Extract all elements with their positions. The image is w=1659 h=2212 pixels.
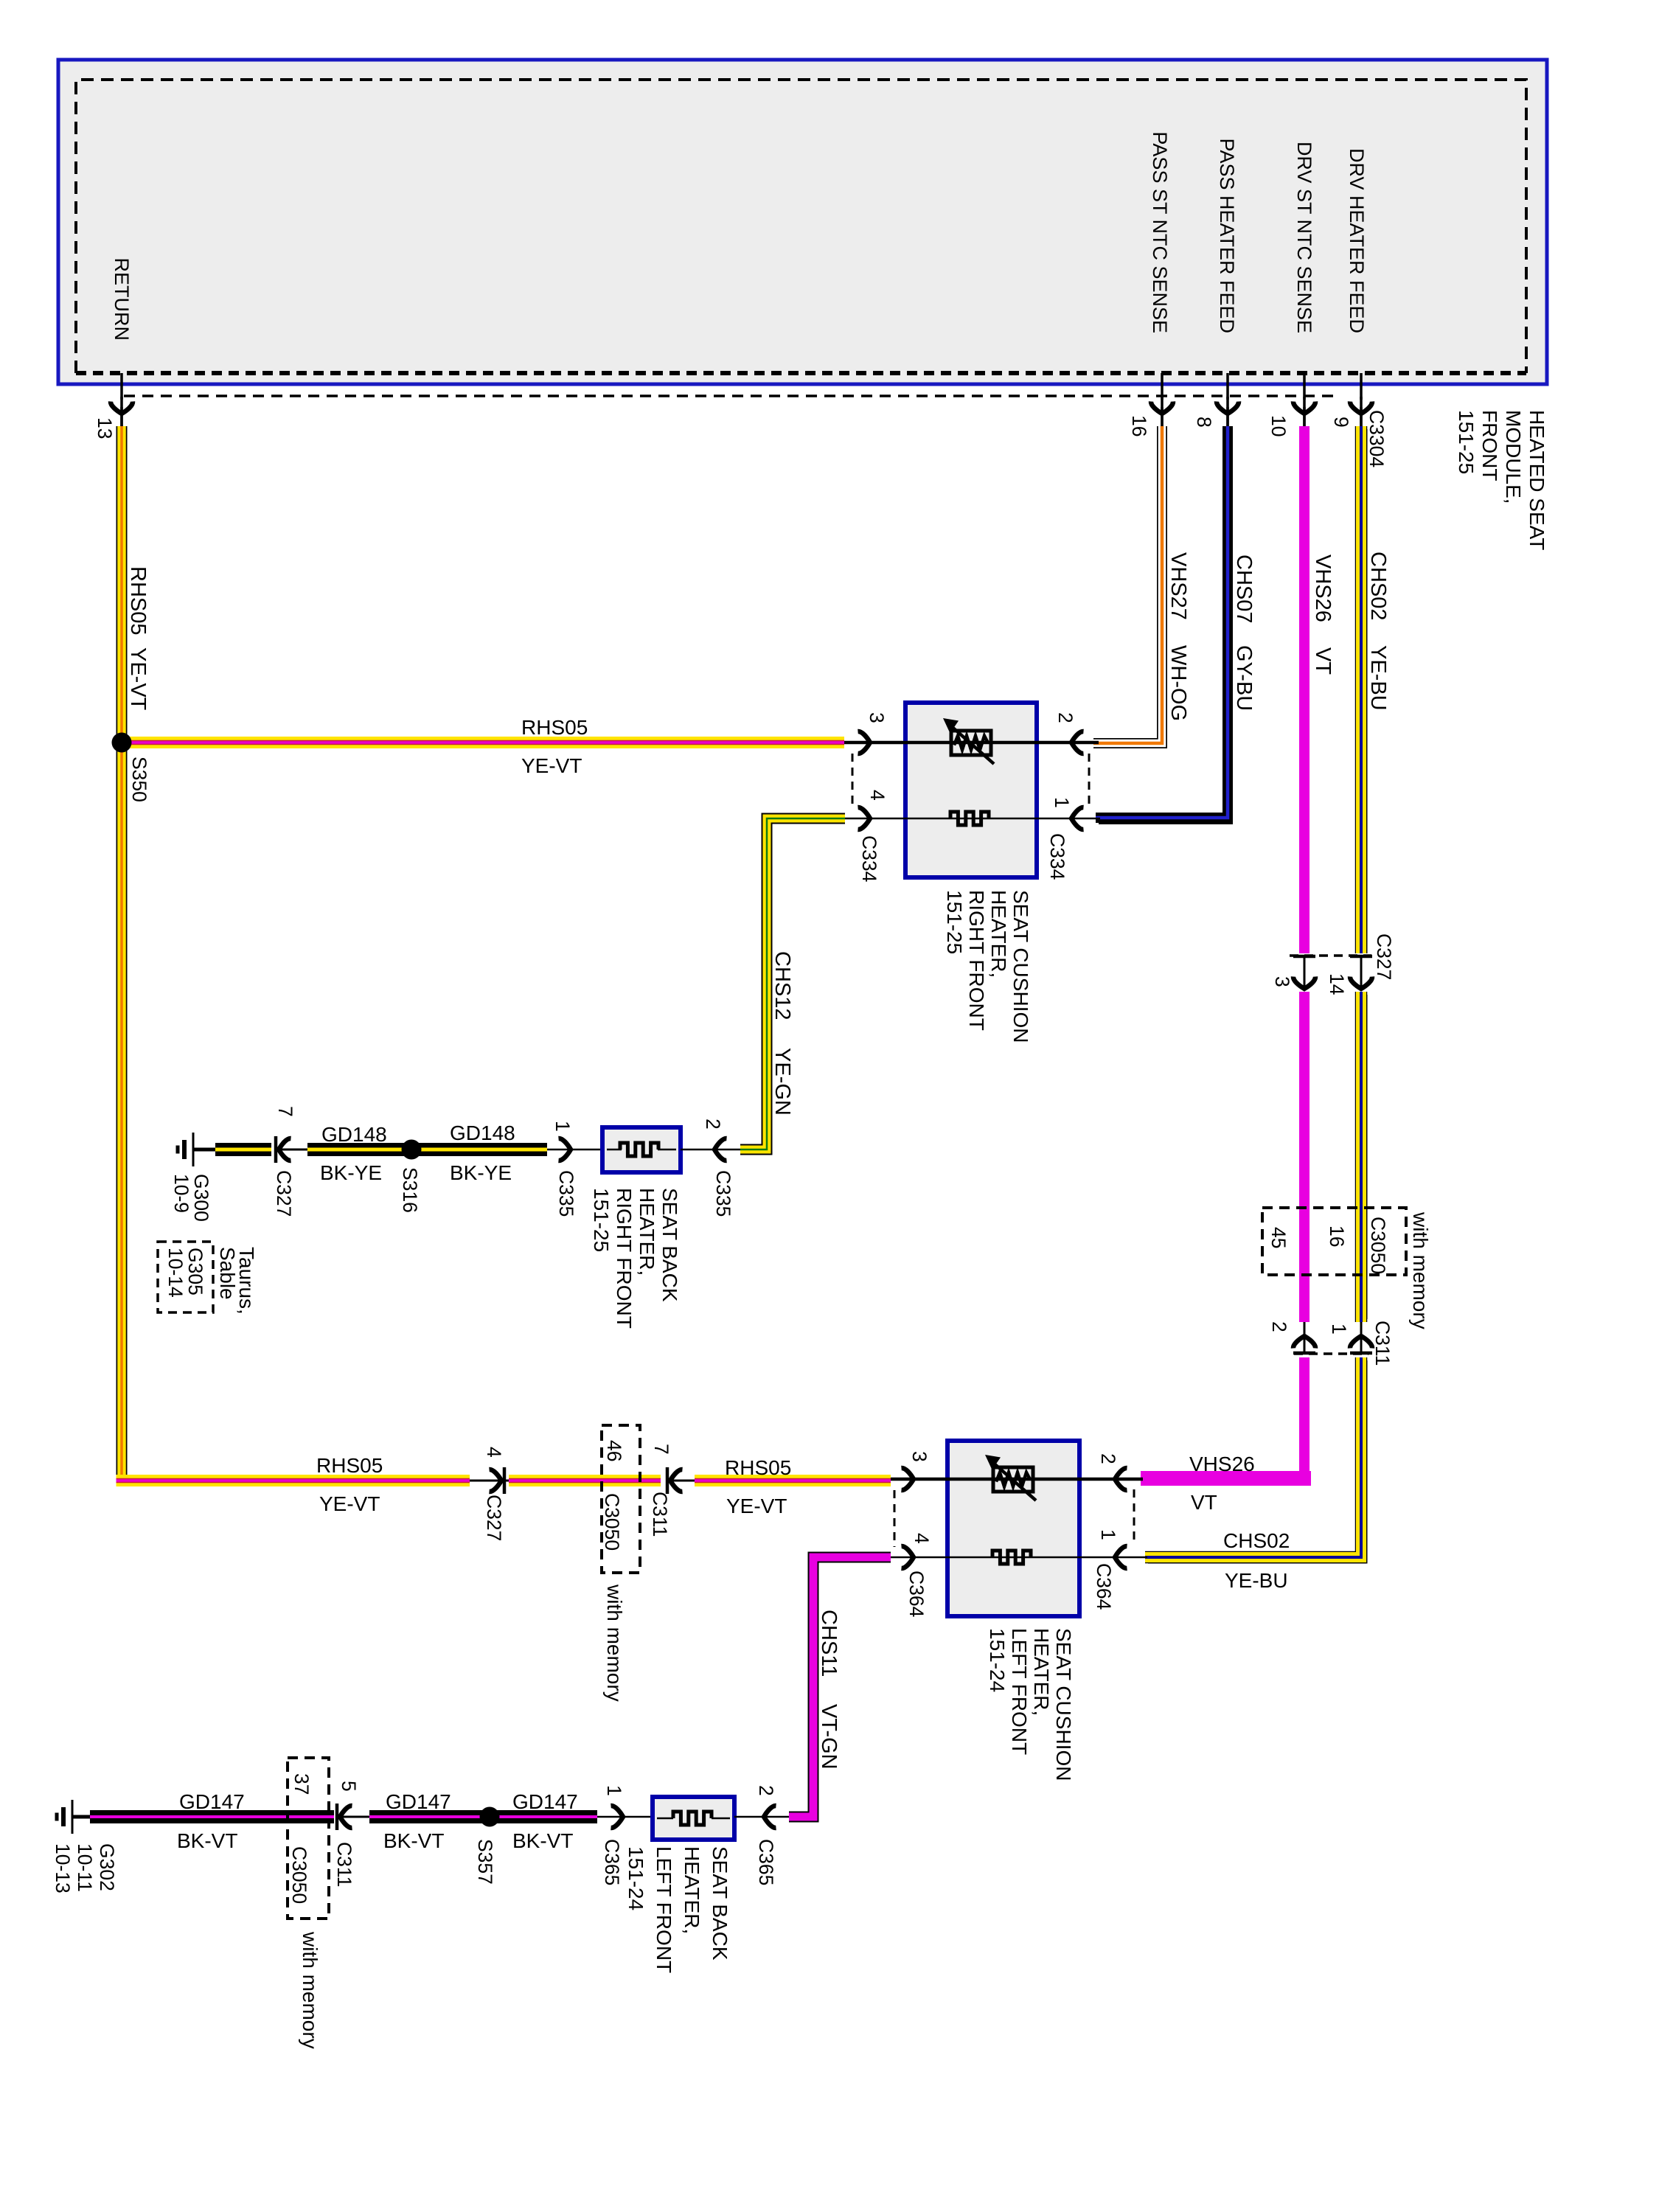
pin label PASS HEATER FEED [1216,138,1238,333]
svg-text:2: 2 [1054,712,1077,723]
wire GD148 BK-YE segment 2 [307,1143,411,1156]
pin 8 of C3304 [1217,373,1239,426]
wire GD147 labels segment 3 [512,1790,578,1852]
wire RHS05 label vertical [126,566,150,711]
wire VHS26 VT from pin 10 segment 1 [1299,426,1310,953]
left cushion heater name [986,1628,1075,1781]
svg-text:RHS05: RHS05 [126,566,150,636]
right seat back heater pin 2 arrow [681,1138,740,1161]
ground reference G305 labels [164,1248,206,1298]
connector C327 pin 14 label [1326,973,1348,995]
connector C364 dashed left [894,1490,896,1547]
connector C327 label lower [483,1495,505,1541]
svg-text:C3050: C3050 [601,1493,623,1551]
svg-text:VHS27: VHS27 [1166,552,1190,620]
svg-text:C3304: C3304 [1366,410,1388,467]
svg-text:4: 4 [866,790,888,801]
connector C311 label right [1371,1321,1394,1366]
svg-text:2: 2 [702,1119,724,1130]
svg-text:S350: S350 [128,757,150,802]
svg-text:with memory: with memory [603,1584,626,1702]
svg-text:151-24: 151-24 [986,1628,1009,1692]
heater element right seat back [620,1143,658,1156]
svg-text:SEAT BACK: SEAT BACK [709,1846,731,1961]
note with memory lower middle [603,1584,626,1702]
connector C335 pin 1 arrow [547,1138,602,1161]
svg-text:C364: C364 [1093,1563,1115,1610]
svg-text:CHS02: CHS02 [1223,1529,1290,1552]
wire pin3-pin2 through left cushion heater [891,1478,1143,1481]
ground G302 [57,1800,91,1834]
svg-text:S316: S316 [399,1167,421,1213]
svg-text:HEATER,: HEATER, [636,1188,658,1276]
wire CHS12 labels [771,951,794,1116]
connector C327 pin 7 label [274,1106,296,1117]
left cushion heater pin 3 arrow [902,1468,914,1490]
connector C335 label left [555,1170,577,1217]
right cushion heater pin 2 label [1054,712,1077,723]
svg-text:C3050: C3050 [288,1846,310,1904]
connector C327 pin 3 arrow [1293,956,1315,989]
wire VHS26 horizontal labels [1189,1453,1255,1514]
wire VHS26 labels [1311,554,1335,675]
pin 16 label [1128,415,1150,437]
right cushion heater pin 2 arrow [1071,731,1084,754]
connector C3050 pin 37 label [291,1773,313,1795]
heater element left seat back [673,1812,712,1825]
svg-text:4: 4 [483,1447,505,1458]
svg-text:DRV HEATER FEED: DRV HEATER FEED [1346,148,1368,333]
ground G300 label [170,1174,212,1222]
svg-text:13: 13 [94,417,116,439]
connector C311 pin 1 label [1328,1324,1350,1335]
left cushion heater pin 3 label [908,1451,931,1462]
wire GD148 labels segment 3 [450,1121,515,1184]
wire GD148 labels segment 2 [320,1123,387,1184]
svg-text:C311: C311 [649,1492,671,1537]
connector C3050 label right [1367,1217,1389,1274]
wire RHS05 YE-VT lower run segment 3 [695,1475,891,1486]
thermistor in left cushion heater [985,1455,1036,1500]
svg-text:YE-VT: YE-VT [126,647,150,711]
svg-text:1: 1 [603,1785,625,1796]
svg-text:16: 16 [1128,415,1150,437]
svg-text:C3050: C3050 [1367,1217,1389,1274]
svg-text:4: 4 [911,1533,933,1544]
svg-text:10-13: 10-13 [52,1843,74,1893]
right seat back heater name [590,1188,681,1329]
pin label DRV ST NTC SENSE [1293,142,1315,333]
svg-text:DRV ST NTC SENSE: DRV ST NTC SENSE [1293,142,1315,333]
svg-text:3: 3 [1271,976,1293,987]
svg-text:SEAT CUSHION: SEAT CUSHION [1052,1628,1075,1781]
wire VHS26 VT segment 2 [1299,992,1310,1322]
wire GD148 BK-YE segment 1 [215,1143,271,1156]
right cushion heater pin 4 arrow [858,807,871,829]
svg-text:BK-VT: BK-VT [512,1829,573,1852]
connector C327 pin 7 bar and arrow [276,1136,307,1163]
connector C365 pin 1 arrow [597,1806,653,1828]
svg-text:151-25: 151-25 [590,1188,613,1252]
connector C327 pin 3 label [1271,976,1293,987]
module name HEATED SEAT MODULE, FRONT, 151-25 [1455,410,1548,550]
svg-text:1: 1 [1328,1324,1350,1335]
left seat back heater pin 2 arrow [734,1806,789,1828]
connector C334 label left [858,835,880,882]
svg-text:151-25: 151-25 [943,890,966,954]
svg-text:VT: VT [1191,1491,1217,1514]
wire CHS11 VT-GN [789,1557,891,1817]
svg-text:CHS11: CHS11 [817,1610,841,1677]
svg-text:GD147: GD147 [512,1790,578,1813]
connector C327 pin 4 arrow [470,1467,509,1494]
splice S357 [480,1807,500,1827]
svg-text:C327: C327 [483,1495,505,1541]
right cushion heater pin 1 arrow [1071,807,1084,829]
svg-text:RIGHT FRONT: RIGHT FRONT [613,1188,636,1329]
pin 9 of C3304 [1350,373,1372,426]
ground G302 label [52,1843,118,1893]
note with memory lower left [299,1931,321,2049]
wire RHS05 YE-VT lower run segment 2 [509,1475,661,1486]
svg-text:BK-YE: BK-YE [450,1161,512,1184]
left seat back heater name [625,1846,731,1973]
splice S316 label [399,1167,421,1213]
connector C311 pin 7 label [650,1444,672,1455]
note Taurus Sable [216,1247,258,1315]
left cushion heater pin 2 label [1097,1453,1119,1464]
pin label DRV HEATER FEED [1346,148,1368,333]
connector C311 dashed line right [1294,1352,1368,1355]
svg-text:LEFT FRONT: LEFT FRONT [653,1846,675,1973]
svg-text:1: 1 [1097,1529,1119,1540]
svg-text:CHS02: CHS02 [1366,552,1390,621]
wire CHS02 YE-BU from pin 9 segment 1 [1361,426,1364,953]
connector C327 pin 14 arrow [1350,956,1372,989]
connector C334 label right [1046,833,1068,880]
wire VHS26 VT segment 3 to left cushion heater [1141,1357,1311,1486]
seat cushion heater right front box [905,703,1037,877]
pin label RETURN [111,258,133,341]
connector C311 label lower [649,1492,671,1537]
right cushion heater pin 3 arrow [858,731,871,754]
svg-text:C365: C365 [601,1839,623,1885]
svg-text:RIGHT FRONT: RIGHT FRONT [965,890,988,1031]
wire RHS05 YE-VT vertical from pin 13 [116,426,128,1481]
wire GD147 BK-VT segment 1 [90,1810,334,1823]
connector C365 label right [755,1839,777,1885]
svg-text:RHS05: RHS05 [725,1456,791,1479]
svg-text:C365: C365 [755,1839,777,1885]
wire GD147 labels segment 2 [383,1790,451,1852]
connector C311 pin 5 bar and arrow [337,1804,369,1830]
svg-text:GD148: GD148 [321,1123,387,1146]
connector C3050 dashed box lower middle [602,1425,640,1573]
svg-text:VT-GN: VT-GN [817,1704,841,1770]
svg-text:YE-BU: YE-BU [1366,645,1390,711]
svg-text:G300: G300 [190,1174,212,1222]
heater element left cushion [992,1551,1031,1564]
wire CHS02 YE-BU segment 2 [1361,992,1364,1322]
svg-text:GD147: GD147 [386,1790,451,1813]
wire GD147 labels segment 1 [177,1790,245,1852]
svg-text:7: 7 [650,1444,672,1455]
connector C364 label right [1093,1563,1115,1610]
svg-text:CHS07: CHS07 [1232,554,1256,624]
connector C311 pin 7 bar and arrow [667,1467,695,1494]
svg-text:C327: C327 [1373,933,1395,980]
seat cushion heater left front box [947,1441,1079,1616]
svg-text:RHS05: RHS05 [521,716,588,739]
svg-text:Sable: Sable [216,1247,239,1300]
right cushion heater name [943,890,1032,1043]
connector C365 pin 1 label [603,1785,625,1796]
note with memory right [1409,1211,1432,1329]
svg-text:GY-BU: GY-BU [1232,645,1256,711]
connector C327 dashed line [1290,954,1371,957]
svg-text:37: 37 [291,1773,313,1795]
connector C3050 dashed box lower left [288,1758,329,1919]
svg-text:WH-OG: WH-OG [1166,645,1190,721]
svg-text:45: 45 [1267,1227,1290,1248]
wire VHS27 WH-OG from pin 16 [1093,426,1162,743]
connector C364 label left [905,1571,928,1617]
svg-text:151-25: 151-25 [1455,410,1478,474]
thermistor in right cushion heater [943,718,994,764]
svg-text:C311: C311 [1371,1321,1394,1366]
svg-text:MODULE,: MODULE, [1502,410,1525,504]
svg-text:RETURN: RETURN [111,258,133,341]
connector C311 pin 5 label [338,1781,360,1792]
svg-text:YE-VT: YE-VT [521,754,582,777]
wire CHS07 GY-BU from pin 8 [1096,426,1233,822]
connector C3050 dashed box right [1262,1208,1406,1275]
svg-text:8: 8 [1193,417,1215,428]
svg-text:G305: G305 [184,1248,206,1295]
svg-text:14: 14 [1326,973,1348,995]
svg-text:SEAT BACK: SEAT BACK [658,1188,681,1302]
svg-text:10-9: 10-9 [170,1174,192,1213]
wire RHS05 label upper run [521,716,588,777]
svg-text:VHS26: VHS26 [1311,554,1335,622]
connector C327 label [1373,933,1395,980]
ground G300 [178,1133,218,1166]
pin 9 label [1330,417,1352,428]
connector C327 pin 4 label [483,1447,505,1458]
svg-text:2: 2 [755,1785,777,1796]
svg-text:10: 10 [1267,415,1290,437]
pin 13 of C3304 [111,373,133,426]
left cushion heater pin 1 arrow [1115,1546,1127,1568]
pin 10 label [1267,415,1290,437]
connector C334 dashed right [1088,754,1091,808]
svg-text:3: 3 [908,1451,931,1462]
wire CHS02 labels [1366,552,1390,711]
svg-text:LEFT FRONT: LEFT FRONT [1008,1628,1031,1755]
connector label C3304 [1366,410,1388,467]
wire CHS02 horizontal labels [1223,1529,1290,1592]
connector C3304 dashed line below module [124,394,1336,397]
svg-text:YE-GN: YE-GN [771,1048,794,1116]
left seat back heater pin 2 label [755,1785,777,1796]
wire RHS05 YE-VT horizontal to right cushion heater [122,737,844,748]
wire GD148 BK-YE segment 3 [411,1143,547,1156]
svg-text:HEATED SEAT: HEATED SEAT [1526,410,1548,550]
connector C3050 pin 16 label [1326,1225,1348,1247]
svg-text:PASS HEATER FEED: PASS HEATER FEED [1216,138,1238,333]
wire VHS27 labels [1166,552,1190,721]
wire pin4-pin1 through left cushion heater [891,1557,1147,1559]
pin 8 label [1193,417,1215,428]
wire RHS05 lower labels 1 [316,1454,383,1515]
svg-text:9: 9 [1330,417,1352,428]
svg-text:5: 5 [338,1781,360,1792]
left cushion heater pin 1 label [1097,1529,1119,1540]
svg-text:CHS12: CHS12 [771,951,794,1020]
pin 10 of C3304 [1293,373,1315,426]
svg-text:YE-BU: YE-BU [1225,1569,1288,1592]
svg-text:C327: C327 [273,1170,295,1217]
svg-text:7: 7 [274,1106,296,1117]
connector C311 label lower left [333,1842,355,1887]
svg-text:C335: C335 [555,1170,577,1217]
svg-text:10-11: 10-11 [74,1843,96,1892]
connector C335 label right [712,1170,734,1217]
wire pin3-pin2 through right cushion heater [844,741,1099,745]
svg-text:BK-YE: BK-YE [320,1161,382,1184]
svg-text:1: 1 [552,1121,574,1132]
svg-text:YE-VT: YE-VT [319,1492,380,1515]
splice S350 [112,733,132,753]
svg-text:151-24: 151-24 [625,1846,647,1910]
svg-text:VT: VT [1311,647,1335,675]
svg-text:C311: C311 [333,1842,355,1887]
svg-text:GD147: GD147 [179,1790,245,1813]
module inner dashed boundary [76,80,1526,373]
wire RHS05 YE-VT lower run segment 1 [116,1475,470,1486]
splice S350 label [128,757,150,802]
svg-text:2: 2 [1097,1453,1119,1464]
ground reference G305 dashed box [158,1242,213,1312]
left cushion heater pin 2 arrow [1115,1468,1127,1490]
wire CHS12 YE-GN [740,818,845,1150]
svg-text:BK-VT: BK-VT [177,1829,237,1852]
svg-text:C334: C334 [1046,833,1068,880]
svg-text:16: 16 [1326,1225,1348,1247]
svg-text:PASS ST NTC SENSE: PASS ST NTC SENSE [1149,131,1171,333]
svg-text:C334: C334 [858,835,880,882]
seat back heater right front box [602,1127,681,1172]
svg-text:46: 46 [603,1440,625,1461]
seat back heater left front box [653,1797,734,1840]
svg-text:RHS05: RHS05 [316,1454,383,1477]
svg-text:SEAT CUSHION: SEAT CUSHION [1009,890,1032,1043]
svg-text:3: 3 [866,712,888,723]
svg-text:HEATER,: HEATER, [987,890,1010,978]
pin 16 of C3304 [1151,373,1173,426]
left cushion heater pin 4 label [911,1533,933,1544]
heater element right cushion [950,812,989,825]
right cushion heater pin 1 label [1051,797,1073,808]
svg-text:with memory: with memory [299,1931,321,2049]
svg-text:1: 1 [1051,797,1073,808]
left cushion heater pin 4 arrow [902,1546,914,1568]
svg-text:VHS26: VHS26 [1189,1453,1255,1475]
connector C311 pin 2 label [1268,1321,1290,1332]
wire RHS05 lower labels 2 [725,1456,791,1517]
svg-text:FRONT: FRONT [1478,410,1501,481]
connector C364 dashed right [1133,1489,1135,1545]
svg-text:C335: C335 [712,1170,734,1217]
connector C365 label left [601,1839,623,1885]
svg-text:YE-VT: YE-VT [726,1495,787,1517]
connector C3050 label lower left [288,1846,310,1904]
svg-text:with memory: with memory [1409,1211,1432,1329]
splice S316 [402,1140,422,1160]
svg-text:HEATER,: HEATER, [1030,1628,1053,1716]
right cushion heater pin 4 label [866,790,888,801]
connector C327 label lower left [273,1170,295,1217]
module box HEATED SEAT MODULE FRONT [58,60,1547,384]
pin label PASS ST NTC SENSE [1149,131,1171,333]
right seat back heater pin 2 label [702,1119,724,1130]
connector C3050 pin 46 label [603,1440,625,1461]
wire CHS07 labels [1232,554,1256,711]
svg-text:2: 2 [1268,1321,1290,1332]
connector C334 dashed left [852,754,854,808]
wire pin4-pin1 through right cushion heater [845,818,1100,820]
svg-text:S357: S357 [474,1839,496,1885]
splice S357 label [474,1839,496,1885]
svg-text:C364: C364 [905,1571,928,1617]
connector C311 pin 2 arrow [1293,1322,1315,1354]
wire CHS11 labels [817,1610,841,1770]
right cushion heater pin 3 label [866,712,888,723]
svg-text:GD148: GD148 [450,1121,515,1144]
svg-text:G302: G302 [96,1843,118,1891]
wire GD147 BK-VT segment 2 [369,1810,490,1823]
connector C335 pin 1 label [552,1121,574,1132]
connector C311 pin 1 arrow [1350,1322,1372,1354]
wire GD147 BK-VT segment 3 [490,1810,597,1823]
connector C3050 label lower middle [601,1493,623,1551]
svg-text:10-14: 10-14 [164,1248,187,1298]
svg-text:HEATER,: HEATER, [681,1846,703,1934]
pin 13 label [94,417,116,439]
svg-text:BK-VT: BK-VT [383,1829,444,1852]
connector C3050 pin 45 label [1267,1227,1290,1248]
wire CHS02 YE-BU segment 3 to left cushion heater [1145,1357,1364,1560]
